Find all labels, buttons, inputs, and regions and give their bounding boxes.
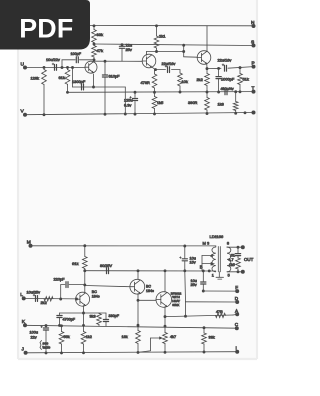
resistor 47k (92, 46, 97, 58)
capacitor 80/25V (106, 268, 108, 274)
svg-text:3k3: 3k3 (90, 315, 96, 319)
wire Q5 emitter column (137, 294, 139, 326)
wire wireA drop to rail (124, 87, 126, 114)
page boundary soft edges (17, 46, 19, 359)
capacitor 220pF (65, 282, 67, 288)
terminal V (23, 113, 27, 117)
wire P line left (207, 67, 221, 69)
node Q3 emitter (206, 67, 209, 70)
wire tap rail (201, 256, 203, 271)
svg-text:1k5: 1k5 (229, 263, 235, 267)
svg-text:I: I (236, 346, 237, 351)
see table brace (40, 341, 42, 350)
svg-text:22u/16v: 22u/16v (218, 57, 232, 62)
node Q1 collector junction (93, 58, 96, 61)
terminal C (235, 326, 239, 330)
capacitor 100u/22v (43, 327, 48, 329)
node 51k/T junction (239, 90, 242, 93)
node wireA/rail junction (124, 113, 127, 116)
svg-text:1: 1 (212, 274, 214, 278)
svg-text:18k: 18k (122, 335, 128, 339)
terminal bottom-right rail end (252, 111, 256, 115)
wire (105, 322, 107, 326)
wire (237, 256, 239, 258)
capacitor 1300pF (81, 84, 83, 90)
node (61, 66, 64, 69)
node Q6 emitter / K junction (164, 325, 167, 328)
svg-text:OUT: OUT (244, 257, 254, 262)
wire secondary top to OUT (227, 246, 243, 248)
node 4700pF/K junction (58, 324, 61, 327)
node 1000pF/T junction (217, 91, 220, 94)
wire D line (186, 301, 238, 303)
resistor 1k5 (152, 97, 157, 109)
terminal P (252, 65, 256, 69)
node 128k/rail junction (43, 113, 46, 116)
capacitor 10u/22v (54, 65, 56, 71)
wire (43, 67, 45, 69)
resistor 2k2 (205, 74, 210, 86)
wire Q6 emitter column (164, 307, 166, 333)
node 1k2/rail junction (82, 351, 85, 354)
node 18k/rail junction (137, 351, 140, 354)
node 10k/T junction (179, 91, 182, 94)
resistor 2k1 (154, 36, 159, 48)
node rail junction (244, 111, 247, 114)
svg-text:1k8: 1k8 (218, 102, 224, 107)
svg-text:25v: 25v (126, 47, 132, 52)
transformer core line 2 (219, 247, 221, 272)
wire M rail (31, 245, 214, 247)
wire Q6 collector to B bus (164, 271, 166, 292)
node S-line junction (182, 44, 185, 47)
node 61k/B-wire junction (83, 269, 86, 272)
wire (154, 88, 156, 92)
node 100u/rail junction (45, 351, 48, 354)
node T/125u junction (134, 91, 137, 94)
svg-text:390R: 390R (188, 100, 197, 105)
svg-text:330pF: 330pF (109, 314, 120, 318)
node 125u/rail junction (134, 113, 137, 116)
svg-text:4700pF: 4700pF (63, 318, 76, 322)
svg-text:184c: 184c (92, 295, 100, 299)
svg-text:L: L (20, 292, 23, 298)
wire (72, 68, 74, 88)
wire Q6 base lead (138, 299, 156, 301)
wire primary top stub (215, 246, 217, 247)
node B (202, 269, 205, 272)
wire L input line (24, 297, 76, 300)
wire (83, 325, 85, 331)
wire (45, 326, 47, 328)
node (208, 269, 211, 272)
wire (93, 57, 95, 60)
wire 313 bus (60, 312, 107, 314)
ground stub (218, 272, 220, 277)
wire (206, 69, 208, 74)
wire (237, 247, 239, 253)
wire (206, 92, 208, 98)
wire K line (25, 325, 237, 328)
wire Q5 base bus (85, 286, 130, 287)
node (182, 50, 185, 53)
wire (59, 313, 61, 315)
wire (62, 59, 75, 61)
wire Q4 collector column (84, 269, 86, 293)
wire (61, 344, 63, 353)
wire 610pF down to rail (104, 78, 106, 115)
svg-text:1000pF: 1000pF (221, 77, 235, 82)
wire (206, 86, 208, 93)
svg-text:184c: 184c (146, 289, 154, 293)
scanned page background (18, 0, 257, 359)
wire Q2 emitter lead (152, 67, 156, 69)
wire 185-column B to D (184, 271, 187, 302)
node U/128k junction (43, 66, 46, 69)
terminal T (252, 90, 256, 94)
svg-text:4.7: 4.7 (229, 258, 234, 262)
svg-text:table: table (43, 346, 51, 350)
terminal L (22, 296, 26, 300)
wire D drop (185, 302, 187, 316)
resistor 2k2 (input) (44, 297, 53, 301)
node F junction (202, 290, 205, 293)
wire (105, 313, 107, 319)
wire (179, 70, 181, 73)
wire (172, 69, 181, 71)
wire (179, 86, 181, 92)
node 10u-15v junction (183, 269, 186, 272)
wire 220pF stub (60, 285, 62, 299)
svg-text:PDF: PDF (19, 14, 73, 44)
node U/wireA junction (71, 66, 74, 69)
4k7 wiper arrowhead (159, 336, 163, 339)
node Q5 collector junction (137, 269, 140, 272)
svg-text:22v: 22v (31, 335, 37, 339)
node 33k/47k/S junction (93, 43, 96, 46)
node snubber top (237, 246, 240, 249)
wire (226, 246, 228, 248)
svg-text:61k: 61k (59, 75, 65, 80)
capacitor 10u/25v (2) (201, 281, 206, 283)
node P/1000pF junction (217, 67, 220, 70)
wire A emitter bus (73, 86, 126, 88)
resistor 61k (bottom) (82, 257, 87, 269)
node A/D junction (184, 315, 187, 318)
node 390R/rail junction (206, 112, 209, 115)
wire (233, 313, 237, 316)
node Q6 emitter / A-wire junction (164, 315, 167, 318)
wire T line (lower bus) (68, 91, 254, 94)
node 1k8/rail junction (234, 112, 237, 115)
svg-text:4: 4 (211, 254, 213, 258)
wire Q3 emitter lead (206, 64, 208, 69)
wire (154, 92, 156, 96)
wire (156, 69, 166, 71)
wire Q3 collector to rail (206, 26, 208, 51)
svg-text:5: 5 (228, 274, 230, 278)
svg-text:10u/25v: 10u/25v (27, 291, 41, 295)
wire (67, 67, 69, 69)
capacitor 22u/25v (119, 45, 124, 47)
wire Q1 collector (93, 60, 95, 63)
wire 100pF to collector junction (79, 59, 94, 61)
transistor Q4 (76, 292, 90, 306)
svg-text:100u: 100u (30, 331, 38, 335)
wire (134, 102, 136, 115)
wire J ground rail (26, 352, 238, 353)
wire Q1 emitter (93, 74, 95, 87)
wire Q4 emitter column (83, 306, 85, 326)
terminal U (23, 66, 27, 70)
capacitor 400u/4v (224, 89, 226, 95)
svg-text:1300pF: 1300pF (72, 79, 86, 84)
wire (239, 85, 241, 92)
capacitor 1000pF (216, 76, 221, 78)
svg-text:N: N (251, 20, 255, 26)
svg-text:6.3v: 6.3v (124, 103, 131, 108)
wire tap 2 (202, 263, 214, 265)
wire Q3 base lead (184, 56, 198, 58)
wire U input line (25, 66, 85, 68)
resistor 4k7 preset (163, 333, 168, 344)
wire (59, 318, 61, 325)
node Q2 emitter (154, 68, 157, 71)
node M/61k junction (83, 244, 86, 247)
resistor 51k (238, 74, 243, 85)
wire top supply rail (90, 25, 254, 27)
resistor 128k (42, 70, 47, 85)
terminal D (235, 300, 239, 304)
capacitor 330pF (103, 319, 108, 321)
svg-text:22u/16v: 22u/16v (162, 61, 176, 66)
resistor 56k (59, 332, 64, 345)
svg-text:56k: 56k (64, 335, 70, 339)
wire 100pF stub (61, 60, 63, 68)
resistor 3k3 (97, 314, 102, 325)
svg-text:M: M (27, 240, 31, 246)
node 478R/T junction (153, 91, 156, 94)
svg-text:4k7: 4k7 (170, 335, 176, 339)
node rail/2k1 junction (155, 24, 158, 27)
wire Q2 collector to Q3 base column (157, 51, 184, 53)
wire (218, 79, 220, 92)
capacitor .01 (235, 253, 240, 255)
svg-text:51k: 51k (243, 77, 249, 82)
node T/1k8 junction (234, 90, 237, 93)
terminal OUT top (241, 245, 245, 249)
wire B to cap (202, 271, 204, 281)
resistor 33k (202, 333, 207, 344)
wire (239, 68, 241, 74)
resistor 478R (152, 74, 157, 88)
svg-text:10k: 10k (182, 79, 188, 84)
resistor 33k (92, 30, 97, 43)
node Q4 base junction (75, 298, 78, 301)
wire (134, 92, 136, 97)
svg-text:15v: 15v (190, 261, 196, 265)
transistor Q1 (85, 61, 97, 73)
ground bar (216, 276, 224, 278)
transistor Q6 (156, 292, 172, 308)
svg-text:2: 2 (211, 262, 213, 266)
node 56k/rail junction (60, 351, 63, 354)
terminal S (252, 44, 256, 48)
node rail/33k junction (93, 24, 96, 27)
wire Q1 collector to Q2 base (94, 60, 142, 62)
transistor Q3 (197, 51, 211, 65)
wire (184, 261, 186, 270)
capacitor 22u/16v (2) (224, 65, 226, 71)
svg-text:P: P (252, 61, 255, 67)
wire Q2 collector (146, 52, 156, 56)
node L/220pF junction (59, 298, 62, 301)
svg-text:10u: 10u (191, 279, 197, 283)
node 2k2/T junction (206, 91, 209, 94)
wire (164, 344, 166, 353)
svg-text:10u/22v: 10u/22v (46, 57, 60, 62)
node base-wire/610pF junction (104, 60, 107, 63)
svg-text:BC: BC (146, 285, 151, 289)
node Q4 emitter / wire-313 junction (82, 312, 85, 315)
wire (84, 246, 86, 257)
node 33k/rail junction (203, 351, 206, 354)
wire (98, 312, 100, 315)
wire tap 4 (202, 255, 214, 257)
wire (137, 344, 139, 353)
capacitor 10u/15v (182, 258, 187, 260)
ground bar 2 (218, 278, 222, 280)
wire (218, 68, 220, 76)
wire (61, 284, 65, 286)
svg-text:1k5: 1k5 (157, 100, 163, 105)
resistor 47R (216, 313, 226, 317)
wire (137, 325, 139, 330)
wire (121, 49, 123, 61)
capacitor 100pF (75, 57, 77, 63)
svg-text:BC: BC (92, 290, 97, 294)
wire (203, 328, 205, 333)
resistor 1k8 (233, 102, 238, 111)
node 4k7/rail junction (164, 351, 167, 354)
wire (154, 70, 156, 74)
svg-text:1k2: 1k2 (86, 335, 92, 339)
capacitor 10u/25v (35, 296, 37, 302)
wire (83, 344, 85, 353)
resistor 10k (178, 73, 183, 86)
wire 4k7 wiper (151, 337, 161, 339)
svg-text:478R: 478R (141, 80, 150, 85)
wire Q3 base column (183, 45, 185, 57)
node Q6 collector junction (164, 269, 167, 272)
node Q5 emitter / Q6 base junction (137, 299, 140, 302)
resistor 390R (205, 98, 210, 111)
wire F line (203, 290, 237, 292)
node Q4 emitter / K junction (82, 324, 85, 327)
capacitor 22u/16v (167, 67, 169, 73)
node M/10u-15v junction (183, 245, 186, 248)
wire (93, 60, 95, 61)
wire B bus (85, 270, 216, 272)
node 1k5/rail junction (153, 112, 156, 115)
node Q5 emitter / K junction (137, 324, 140, 327)
terminal M (29, 244, 33, 248)
svg-text:LD1166: LD1166 (210, 234, 224, 239)
capacitor 4700pF (57, 315, 62, 317)
node snubber bottom (237, 270, 240, 273)
wire (121, 45, 123, 46)
wire (156, 48, 158, 52)
capacitor 125u/6.3v (132, 98, 137, 100)
wire (235, 111, 237, 114)
node K/100u junction (45, 324, 48, 327)
node Q2 collector junction (155, 50, 158, 53)
node 610pF/rail junction (104, 113, 107, 116)
terminal K (23, 323, 27, 327)
PDF badge (0, 0, 100, 56)
wire (154, 109, 156, 114)
node 220pF junction (83, 283, 86, 286)
wire (67, 84, 69, 92)
transistor Q2 (142, 54, 156, 68)
wire P line right (228, 67, 254, 69)
wire 220pF to collector column (69, 284, 85, 286)
svg-text:610pF: 610pF (109, 74, 121, 79)
svg-text:128k: 128k (31, 75, 39, 80)
terminal J (24, 351, 28, 355)
wire (214, 245, 216, 247)
wire (45, 331, 47, 353)
svg-text:2k1: 2k1 (159, 34, 166, 39)
svg-text:33k: 33k (209, 336, 215, 340)
terminal I (235, 350, 239, 354)
svg-text:220pF: 220pF (54, 277, 66, 282)
terminal F (235, 289, 239, 293)
node P/51k junction (239, 66, 242, 69)
terminal N (252, 24, 256, 28)
wire (104, 61, 106, 74)
terminal A (235, 312, 239, 316)
terminal OUT bottom (241, 270, 245, 274)
resistor 1k2 (81, 332, 86, 345)
svg-text:U: U (21, 62, 25, 68)
transformer primary winding (212, 247, 216, 272)
svg-text:SINK: SINK (172, 303, 179, 307)
wire (203, 344, 205, 352)
wire (93, 26, 95, 30)
resistor 18k (136, 331, 141, 344)
svg-text:25v: 25v (191, 283, 197, 287)
resistor 61k (65, 70, 70, 85)
wire (156, 26, 158, 36)
wire Q5 collector (137, 271, 139, 280)
node 61k/T-line junction (66, 91, 69, 94)
wire 4k7 wiper return (138, 338, 151, 352)
wire secondary bottom to OUT (227, 271, 243, 273)
transistor Q5 (130, 279, 145, 294)
svg-text:47R: 47R (216, 310, 223, 314)
transformer core line 1 (217, 247, 219, 272)
svg-text:2k2: 2k2 (197, 77, 203, 82)
node S/22u junction (121, 43, 124, 46)
svg-text:2k2: 2k2 (41, 300, 47, 305)
wire (237, 269, 239, 272)
svg-text:61k: 61k (72, 261, 78, 266)
wire (206, 110, 208, 114)
resistor 1k5 (snubber) (236, 258, 241, 269)
wire (43, 85, 45, 115)
svg-text:T: T (252, 86, 255, 92)
